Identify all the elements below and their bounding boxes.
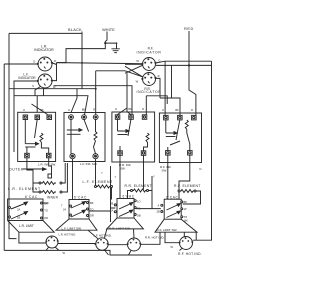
svg-text:L.F. ELEMENT: L.F. ELEMENT bbox=[83, 180, 114, 184]
wire x96 drop to box2 t3 bbox=[95, 71, 97, 115]
svg-text:R: R bbox=[158, 74, 160, 78]
wire box4 t1 feed bbox=[164, 61, 166, 115]
svg-text:TO: TO bbox=[44, 209, 48, 213]
svg-text:2B: 2B bbox=[157, 210, 160, 214]
wire RR limit to hot bbox=[133, 229, 136, 238]
wire top border L1 bbox=[9, 32, 82, 34]
svg-text:Y: Y bbox=[101, 171, 103, 175]
wire rail95.8 to box3 t3 bbox=[146, 96, 167, 115]
infinite switch L.F. box bbox=[64, 109, 105, 162]
indicator lamp R.R. bbox=[136, 73, 162, 95]
svg-text:R: R bbox=[191, 109, 193, 112]
svg-text:6'CAC: 6'CAC bbox=[123, 195, 135, 199]
wire lamp W rail to box3 t2 bbox=[54, 86, 133, 115]
element R.R. coil bbox=[131, 189, 149, 192]
node bus1 end bbox=[95, 88, 97, 90]
svg-text:A: A bbox=[158, 203, 160, 207]
wire LR triangle to hot bbox=[19, 232, 46, 243]
svg-text:L.F. LIMIT SW.: L.F. LIMIT SW. bbox=[62, 226, 82, 230]
svg-text:L.R. ELEMENT: L.R. ELEMENT bbox=[8, 187, 41, 191]
wire left border bbox=[9, 33, 17, 238]
wire x127 drop bbox=[118, 73, 131, 114]
svg-text:Y: Y bbox=[153, 175, 155, 179]
svg-text:BK: BK bbox=[40, 109, 44, 112]
wire WHITE drop bbox=[105, 32, 107, 44]
wire RF hot left lead bbox=[165, 232, 180, 243]
wire lamp rail to R.F. ind bbox=[57, 63, 143, 64]
limit box R.R. bbox=[110, 199, 141, 219]
svg-text:DR: DR bbox=[90, 214, 94, 218]
wire RF ind left lead bbox=[125, 63, 142, 65]
svg-text:SW.: SW. bbox=[120, 167, 126, 171]
wire bottom bus bbox=[4, 250, 152, 255]
svg-text:R: R bbox=[142, 108, 144, 111]
limit switch triangle L.F. bbox=[56, 219, 97, 230]
svg-text:W: W bbox=[136, 59, 139, 63]
svg-text:BK: BK bbox=[44, 202, 48, 206]
svg-text:2A: 2A bbox=[17, 208, 20, 212]
wire RF hot bottom tick bbox=[180, 248, 183, 251]
wire wrap L.R. to L.F. lamp bbox=[52, 63, 56, 81]
svg-text:L.R. LIMIT: L.R. LIMIT bbox=[19, 224, 34, 228]
wire BLACK drop bbox=[81, 32, 83, 89]
wire right top rail bbox=[165, 60, 211, 62]
hot indicator L.R. bbox=[45, 232, 76, 248]
infinite switch R.R. box bbox=[112, 108, 155, 162]
svg-text:R.R. HOT IND.: R.R. HOT IND. bbox=[145, 236, 164, 240]
wire RF triangle to hot bbox=[184, 232, 196, 240]
wire cross diagonal 1 bbox=[125, 65, 142, 73]
wire WHITE to lamps bbox=[57, 43, 106, 63]
svg-text:1B: 1B bbox=[17, 215, 20, 219]
svg-text:O: O bbox=[33, 59, 35, 63]
svg-text:R: R bbox=[93, 109, 95, 112]
svg-text:BK: BK bbox=[90, 201, 94, 205]
svg-text:BK: BK bbox=[175, 109, 179, 112]
svg-text:INDICATOR: INDICATOR bbox=[18, 76, 36, 80]
wire RR hot bottom tick bbox=[129, 251, 132, 256]
wire RR ind right down bbox=[156, 78, 161, 98]
svg-text:DR: DR bbox=[44, 216, 48, 220]
wire bus1 bbox=[9, 88, 96, 90]
wire box1 t5 drop bbox=[49, 158, 52, 174]
limit box R.F. bbox=[157, 199, 189, 222]
hot indicator L.F. bbox=[94, 233, 112, 250]
node junction BLACK-lamp rail bbox=[81, 62, 83, 64]
wire box1 t2 drop bbox=[36, 96, 38, 113]
hot indicator R.F. bbox=[178, 237, 202, 257]
wire L.F. lamp bottom down bbox=[43, 88, 45, 96]
svg-text:L.R. INF. SW.: L.R. INF. SW. bbox=[38, 163, 56, 167]
wire LF coil leads bbox=[96, 159, 112, 200]
svg-text:R.F. ELEMENT: R.F. ELEMENT bbox=[174, 184, 201, 188]
svg-text:6'CAC: 6'CAC bbox=[74, 195, 87, 199]
wire to ground bbox=[105, 43, 116, 49]
wire LF hot top lead bbox=[88, 229, 107, 239]
svg-text:O: O bbox=[158, 58, 160, 62]
limit switch triangle R.F. bbox=[155, 219, 197, 232]
wire bus2 bbox=[14, 89, 88, 115]
wire element LR left leads bbox=[27, 158, 39, 192]
wire cross diagonal 2 bbox=[125, 66, 143, 77]
svg-text:L.F. INF. SW.: L.F. INF. SW. bbox=[80, 162, 98, 166]
svg-text:BK: BK bbox=[184, 200, 188, 204]
svg-text:TO: TO bbox=[137, 206, 141, 210]
node junction W2 bbox=[116, 42, 118, 44]
wire LF hot bottom tick bbox=[105, 250, 109, 255]
svg-text:SW.: SW. bbox=[162, 169, 168, 173]
svg-text:O: O bbox=[115, 108, 117, 111]
wire right border bbox=[193, 61, 212, 240]
wire RF ind right rail bbox=[156, 64, 212, 66]
svg-text:24: 24 bbox=[63, 208, 66, 212]
svg-text:R: R bbox=[54, 59, 56, 63]
limit box L.F. bbox=[61, 200, 94, 220]
wire RR coil leads bbox=[120, 155, 161, 208]
svg-text:TO: TO bbox=[184, 215, 188, 219]
svg-text:OUTER: OUTER bbox=[9, 167, 24, 171]
wire RF coil leads bbox=[168, 155, 201, 204]
limit switch triangle R.R. bbox=[107, 218, 144, 231]
svg-text:D: D bbox=[200, 167, 202, 171]
infinite switch L.R. box bbox=[18, 109, 56, 162]
wire LF-RR hot link bbox=[108, 244, 128, 246]
svg-text:Y: Y bbox=[115, 175, 117, 179]
wire RR hot right lead bbox=[141, 232, 161, 244]
svg-text:WHITE: WHITE bbox=[102, 28, 115, 32]
indicator lamp R.F. bbox=[136, 47, 161, 71]
ground bbox=[111, 49, 119, 53]
svg-text:INDICATOR: INDICATOR bbox=[34, 48, 54, 52]
wire LR-LF hot link bbox=[58, 243, 96, 245]
limit box L.R. bbox=[8, 199, 49, 221]
node junction W1 bbox=[104, 42, 106, 44]
hot indicator R.R. bbox=[127, 236, 165, 251]
wire L.F. lamp left down bbox=[14, 81, 41, 96]
wire L.R. ind left lead bbox=[4, 63, 38, 65]
svg-text:O: O bbox=[68, 109, 70, 112]
svg-text:W: W bbox=[136, 79, 139, 83]
svg-text:INDICATOR: INDICATOR bbox=[136, 51, 161, 55]
element L.F. coil bbox=[95, 185, 113, 188]
svg-text:O: O bbox=[162, 109, 164, 112]
svg-text:INDICATOR: INDICATOR bbox=[136, 90, 161, 94]
svg-text:RED: RED bbox=[184, 27, 194, 31]
element L.R. inner coil bbox=[39, 191, 62, 200]
wire x171 link bbox=[171, 65, 173, 98]
indicator lamp L.R. bbox=[33, 44, 56, 71]
wire bus1 to box2 t1 bbox=[71, 89, 77, 113]
svg-text:S: S bbox=[32, 84, 34, 88]
element L.R. outer coil bbox=[39, 174, 62, 185]
svg-text:R.R. ELEMENT: R.R. ELEMENT bbox=[125, 184, 152, 188]
wire LR limit BK pin lead bbox=[43, 202, 49, 204]
svg-text:1O: 1O bbox=[137, 199, 140, 203]
svg-text:L.F. HOT IND.: L.F. HOT IND. bbox=[94, 233, 112, 237]
svg-text:7: 7 bbox=[61, 204, 63, 208]
wire RR limit left pin lead bbox=[89, 166, 115, 222]
svg-text:R.F. HOT IND.: R.F. HOT IND. bbox=[178, 252, 202, 256]
svg-text:L.R. HOT IND.: L.R. HOT IND. bbox=[59, 232, 77, 236]
node RED junction bbox=[188, 64, 190, 66]
wire left drop bus bbox=[3, 64, 5, 250]
svg-text:W: W bbox=[171, 245, 174, 249]
infinite switch R.F. box bbox=[159, 109, 201, 163]
svg-text:R.F. LIMIT SW.: R.F. LIMIT SW. bbox=[157, 228, 178, 232]
wire rail98 to box4 t2 bbox=[160, 98, 180, 115]
wire y70.8 rail bbox=[96, 71, 143, 77]
svg-text:BK: BK bbox=[82, 109, 86, 112]
wire LR hot bottom bbox=[46, 247, 59, 251]
svg-text:6'CAC: 6'CAC bbox=[25, 195, 38, 199]
svg-text:W: W bbox=[184, 207, 187, 211]
indicator lamp L.F. bbox=[18, 72, 56, 89]
svg-text:BLACK: BLACK bbox=[68, 28, 82, 32]
wire element LR right leads bbox=[62, 163, 67, 192]
svg-text:R.R. LIMIT SW.: R.R. LIMIT SW. bbox=[109, 227, 131, 231]
svg-text:W: W bbox=[63, 251, 66, 255]
svg-text:O: O bbox=[23, 109, 25, 112]
limit switch triangle L.R. bbox=[8, 221, 55, 233]
wire x14 stub bbox=[13, 96, 15, 152]
element R.F. coil bbox=[178, 190, 196, 193]
wire box2 t4 drop bbox=[72, 159, 74, 200]
svg-text:BK: BK bbox=[128, 108, 132, 111]
wire RF ind diag up bbox=[155, 61, 165, 63]
wire outer arrow bbox=[23, 168, 46, 171]
wire box1 t3 diagonal bbox=[32, 104, 48, 115]
svg-text:INNER: INNER bbox=[47, 195, 59, 199]
svg-text:DB: DB bbox=[137, 214, 141, 218]
wire RED drop bbox=[189, 31, 196, 115]
